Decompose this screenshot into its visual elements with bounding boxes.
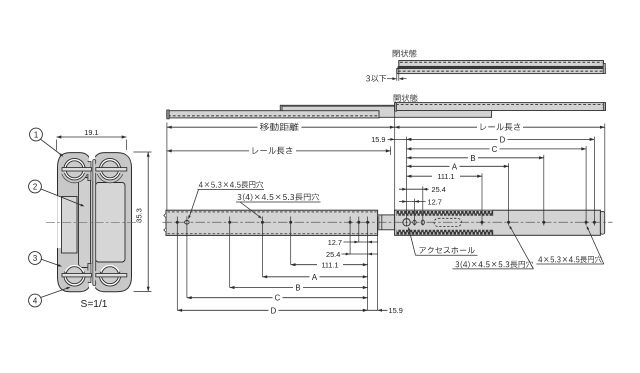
retainer lips through bottom balls xyxy=(62,274,92,277)
dimension 19.1 (width) xyxy=(56,140,58,151)
extension lines above inner rail xyxy=(406,137,408,226)
svg-text:D: D xyxy=(500,135,506,144)
svg-text:3: 3 xyxy=(33,254,37,263)
dimension 111.1 (top) xyxy=(407,175,432,177)
open state cabinet member (bottom left) xyxy=(167,111,379,118)
closed state rail top strip xyxy=(399,61,604,67)
dimension C (bottom) xyxy=(187,297,273,299)
ball retainer band top xyxy=(396,211,492,216)
svg-text:S=1/1: S=1/1 xyxy=(81,299,108,310)
svg-text:A: A xyxy=(312,273,318,282)
svg-text:1: 1 xyxy=(34,130,38,139)
svg-text:25.4: 25.4 xyxy=(326,250,340,259)
closed state label xyxy=(393,50,417,58)
outer member profile (part 1) silhouette xyxy=(58,153,132,292)
retainer plate (part 2) xyxy=(62,197,78,254)
dimension 15.9 (bottom) xyxy=(368,309,388,311)
dimension B (bottom) xyxy=(230,287,293,289)
svg-text:15.9: 15.9 xyxy=(371,135,385,144)
drawer member right end cap xyxy=(603,103,605,111)
oblong hole on outer rail xyxy=(185,221,190,225)
balloon 2 xyxy=(29,180,42,193)
svg-text:C: C xyxy=(275,294,281,303)
inner rail neck (plan) xyxy=(378,215,395,230)
open state middle member left cap xyxy=(280,105,282,117)
balloon 3 xyxy=(29,252,42,265)
label oblong hole 4x5.3x4.5 (bottom right) xyxy=(538,256,601,263)
svg-text:12.7: 12.7 xyxy=(428,198,442,207)
label oblong hole 3(4)x4.5x5.3 (top left) xyxy=(237,193,319,201)
extension line at open-rail left end xyxy=(166,123,168,211)
rivet holes on outer rail xyxy=(176,221,179,224)
extension lines below outer rail xyxy=(176,217,178,311)
leader 4 xyxy=(41,288,69,298)
svg-text:19.1: 19.1 xyxy=(84,128,98,137)
dimension 111.1 (bottom) xyxy=(291,264,317,266)
dimension 3 or less xyxy=(387,78,394,80)
dimension rail length (top right) xyxy=(395,126,477,128)
dimension 12.7 (top) xyxy=(399,201,426,203)
svg-text:2: 2 xyxy=(33,182,37,191)
section centerline xyxy=(46,221,144,223)
closed state rail bottom strip xyxy=(397,69,605,74)
drawer member left end cap xyxy=(395,103,397,112)
plan view outer rail (left) xyxy=(166,210,378,235)
dimension 35.3 (height) xyxy=(134,151,152,153)
label oblong hole 4x5.3x4.5 (top left) xyxy=(199,181,263,188)
dimension 15.9 (top) xyxy=(388,138,412,140)
dimension A (bottom) xyxy=(262,276,309,278)
open state middle member xyxy=(280,105,491,117)
svg-text:D: D xyxy=(271,306,277,315)
balloon 4 xyxy=(29,294,42,307)
balloon 1 xyxy=(30,128,43,141)
svg-text:C: C xyxy=(492,145,498,154)
extension line at drawer-rail left end xyxy=(394,112,396,211)
svg-text:A: A xyxy=(452,162,458,171)
plan view centerline xyxy=(163,221,613,223)
retainer band end xyxy=(492,211,494,216)
cabinet member left end cap xyxy=(167,110,169,119)
dimension C (top) xyxy=(407,148,490,150)
extension line at rail right end xyxy=(604,124,606,213)
svg-text:12.7: 12.7 xyxy=(328,238,342,247)
svg-text:15.9: 15.9 xyxy=(389,306,403,315)
ball retainer band bottom xyxy=(397,230,493,232)
retainer lips through top balls xyxy=(62,168,92,171)
profile gaps xyxy=(57,196,63,248)
label oblong hole 3(4)x4.5x5.3 (bottom right) xyxy=(455,261,533,269)
small oblong holes on inner rail xyxy=(413,220,416,224)
dimension A (top) xyxy=(407,165,450,167)
hidden oblong hole (dashed) xyxy=(434,218,462,226)
open state label xyxy=(394,94,418,102)
closed rail right end cap xyxy=(603,64,605,74)
inner member side wall strip xyxy=(93,160,96,286)
inner vertical rail member xyxy=(79,178,91,268)
svg-text:111.1: 111.1 xyxy=(437,172,454,181)
dimension rail length (left, second row) xyxy=(167,150,249,152)
center connecting columns xyxy=(88,162,91,181)
dimension 25.4 (top) xyxy=(399,188,429,190)
closed rail left edges extended xyxy=(396,69,398,81)
access hole xyxy=(403,219,410,226)
dimension idou kyori (travel distance) xyxy=(167,126,258,128)
inner rail end cap xyxy=(600,211,604,234)
svg-text:4: 4 xyxy=(33,296,38,305)
open state drawer member (top right) xyxy=(395,103,606,111)
leader 2 xyxy=(41,189,83,206)
leader 1 xyxy=(41,139,63,155)
svg-text:35.3: 35.3 xyxy=(135,208,144,223)
leader 3 xyxy=(41,259,60,266)
inner member web (part 3) xyxy=(96,183,126,263)
dimension B (top) xyxy=(407,157,468,159)
plan view inner rail (right) xyxy=(395,210,601,235)
dimension 25.4 (bottom) xyxy=(342,253,379,255)
svg-text:B: B xyxy=(295,284,300,293)
dimension D (bottom) xyxy=(177,309,268,311)
closed state rail middle band xyxy=(398,66,604,68)
outer rail left break marks xyxy=(164,214,166,218)
dimension D (top) xyxy=(407,138,498,140)
svg-text:111.1: 111.1 xyxy=(321,261,338,270)
rivet holes on inner rail xyxy=(481,221,484,224)
ball raceway assemblies xyxy=(64,159,85,180)
dimension 12.7 (bottom) xyxy=(344,241,379,243)
svg-text:25.4: 25.4 xyxy=(432,185,446,194)
label access hole xyxy=(420,247,475,254)
svg-text:B: B xyxy=(470,154,475,163)
